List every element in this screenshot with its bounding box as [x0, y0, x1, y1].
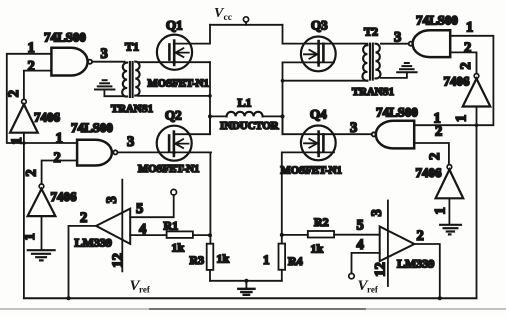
svg-text:INDUCTOR: INDUCTOR [220, 120, 279, 132]
wire Vcc top rail [210, 24, 283, 26]
wire R3 bottom to R4 bottom [210, 280, 282, 282]
wire Q3 drain to Vcc rail [282, 25, 284, 44]
svg-text:3: 3 [369, 209, 385, 216]
svg-text:74LS00: 74LS00 [416, 13, 458, 28]
node junction Q1 source crossing [172, 60, 176, 64]
svg-text:3: 3 [350, 120, 357, 136]
wire Q3 drain/gate line to T2 secondary top [283, 43, 362, 45]
svg-text:3: 3 [101, 46, 108, 62]
node junction Q4 gate crossing [317, 151, 321, 155]
svg-text:LM339: LM339 [75, 236, 112, 250]
node junction U10 output at bottom rail [438, 296, 442, 300]
svg-text:74LS00: 74LS00 [71, 120, 113, 135]
transistor Q3 MOSFET (mirrored) [301, 37, 336, 72]
svg-text:Q1: Q1 [166, 18, 183, 33]
svg-text:TRANS1: TRANS1 [352, 86, 394, 98]
wire left riser Q1 source down to Q2 drain [209, 62, 211, 134]
svg-text:1: 1 [454, 115, 470, 122]
wire bottom rail [24, 297, 477, 299]
svg-text:7406: 7406 [34, 110, 61, 125]
svg-text:1k: 1k [311, 242, 324, 256]
wire Q4 source line [283, 151, 335, 153]
transformer T1 [122, 62, 139, 97]
svg-text:1: 1 [263, 252, 270, 267]
inductor L1 [210, 112, 283, 117]
node junction center ground [244, 279, 248, 283]
svg-text:1: 1 [22, 233, 38, 240]
NAND gate U5 74LS00 top-right (mirrored) [409, 30, 451, 57]
svg-text:T1: T1 [125, 40, 139, 54]
svg-text:LM339: LM339 [397, 257, 434, 271]
node junction U2 input / cross wire [22, 141, 26, 145]
svg-text:Q3: Q3 [311, 18, 328, 33]
terminal Vcc [243, 17, 248, 25]
transistor Q2 MOSFET [157, 126, 192, 161]
transformer T2 [362, 44, 381, 81]
wire U9 pin5 to terminal [130, 195, 174, 217]
inverter 7406 U8 (lower-right) [436, 165, 464, 199]
wire U2 input stem down left rail to bottom rail [23, 133, 25, 299]
wire U5 pin2 to inverter U6 output [450, 52, 476, 73]
node junction R2 left [280, 233, 284, 237]
svg-text:Q4: Q4 [310, 107, 327, 122]
svg-text:2: 2 [427, 153, 443, 160]
wire U9 pin4 to R1 [130, 234, 166, 236]
svg-text:2: 2 [435, 124, 442, 140]
transistor Q1 MOSFET [157, 35, 192, 70]
label Vref (left) [130, 278, 151, 295]
wire U1 output to T1 primary top [92, 61, 124, 63]
wire U9 pin3 supply stub [121, 180, 123, 272]
ground (T1 primary) [95, 80, 125, 96]
transistor Q4 MOSFET (mirrored) [301, 125, 336, 160]
svg-text:R4: R4 [288, 254, 303, 268]
svg-text:5: 5 [357, 218, 364, 234]
svg-text:2: 2 [80, 210, 87, 226]
svg-text:ref: ref [139, 285, 151, 295]
svg-text:cc: cc [224, 13, 232, 23]
node junction Q2 source crossing [172, 151, 176, 155]
wire U1 pin2 to inverter U2 output [24, 71, 52, 100]
svg-text:Q2: Q2 [165, 108, 182, 123]
ground (U8 input) [440, 225, 461, 235]
svg-text:MOSFET-N1: MOSFET-N1 [281, 165, 342, 177]
wire T2 primary top to NAND U5 output [381, 43, 409, 45]
svg-text:4: 4 [357, 237, 364, 253]
wire U10 output pin2 to bottom rail [414, 244, 439, 298]
svg-text:1k: 1k [172, 241, 185, 255]
wire Q2 source down sense column to R3 [209, 152, 211, 243]
label Vcc [214, 6, 232, 23]
svg-text:2: 2 [54, 150, 61, 166]
wire T1 secondary bottom to riser [138, 95, 210, 97]
NAND gate U3 74LS00 mid-left [77, 140, 117, 166]
svg-text:1: 1 [56, 131, 63, 147]
terminal (U9 pin5) [171, 189, 177, 195]
svg-text:2: 2 [24, 169, 40, 176]
svg-text:T2: T2 [364, 25, 378, 39]
node junction U6 input / cross wire [475, 123, 479, 127]
svg-text:5: 5 [136, 201, 143, 217]
svg-text:12: 12 [372, 262, 388, 277]
svg-text:L1: L1 [238, 96, 252, 110]
svg-text:R1: R1 [164, 219, 179, 233]
svg-text:7406: 7406 [416, 165, 443, 180]
comparator U10 LM339 (right, pointing right) [380, 227, 415, 262]
NAND gate U1 74LS00 top-left [51, 48, 92, 76]
svg-text:2: 2 [458, 62, 474, 69]
wire T1 secondary top / Q1 gate-source line to L1 riser [139, 61, 211, 63]
svg-text:MOSFET-N1: MOSFET-N1 [148, 78, 209, 90]
node junction L1 right [281, 114, 285, 118]
resistor R3 [207, 244, 214, 281]
label Vref (right) [358, 278, 379, 295]
wire right riser Q3 source down to Q4 drain [282, 62, 284, 134]
inverter 7406 U2 (upper-left) [10, 99, 38, 132]
terminal Vref (U10 pin4) [349, 273, 354, 278]
svg-text:3: 3 [394, 30, 401, 46]
svg-text:2: 2 [28, 59, 35, 75]
svg-text:74LS00: 74LS00 [376, 105, 418, 120]
wire U4 input stem to ground [41, 216, 43, 249]
wire U5 pin1 right-rail cross-coupling to U7 pin1 [414, 36, 493, 125]
svg-text:R3: R3 [190, 253, 205, 267]
svg-text:TRANS1: TRANS1 [111, 103, 153, 115]
node junction R1 right [208, 233, 212, 237]
svg-text:1: 1 [28, 40, 35, 56]
ground (T2 primary) [381, 63, 417, 78]
svg-text:1: 1 [466, 20, 473, 36]
svg-text:ref: ref [367, 285, 379, 295]
wire U10 pin3 supply stub [387, 201, 389, 287]
wire NAND U1 pin1 cross-coupling: left rail down to lower NAND row [7, 54, 77, 143]
svg-text:MOSFET-N1: MOSFET-N1 [138, 163, 199, 175]
node junction U9 output at bottom rail [67, 296, 71, 300]
wire T2 secondary bottom to riser [283, 80, 368, 82]
svg-text:3: 3 [104, 196, 120, 203]
ground (center, R3/R4) [238, 281, 254, 295]
svg-text:1: 1 [433, 207, 449, 214]
ground (U4 input) [28, 250, 55, 260]
NAND gate U7 74LS00 mid-right (mirrored) [372, 121, 415, 149]
node junction T2 bottom [281, 79, 285, 83]
resistor R2 [282, 231, 334, 238]
inverter 7406 U6 (upper-right) [463, 74, 491, 107]
node junction T1 bottom [208, 94, 212, 98]
svg-text:2: 2 [417, 228, 424, 244]
wire R2 to U10 pin5 [334, 234, 380, 236]
node junction L1 left [208, 114, 212, 118]
wire U9 output pin2 to bottom rail [69, 226, 97, 298]
resistor R1 [167, 231, 210, 238]
svg-text:7406: 7406 [444, 74, 471, 89]
wire U10 pin4 to Vref terminal [352, 253, 380, 274]
svg-text:R2: R2 [314, 215, 329, 229]
wire U6 input stem down right rail to bottom rail [476, 107, 478, 299]
wire Q3 source line [283, 61, 335, 63]
node junction Q3 source crossing [317, 61, 321, 65]
svg-text:1k: 1k [217, 252, 230, 266]
svg-text:2: 2 [6, 90, 22, 97]
wire U3 pin2 to inverter U4 output [42, 161, 78, 185]
svg-text:3: 3 [127, 134, 134, 150]
wire U3 output to Q2 gate-source line [118, 151, 212, 153]
wire Q2 drain up to L1 left node [174, 116, 210, 134]
border bottom edge of figure [0, 308, 506, 310]
inverter 7406 U4 (lower-left) [28, 184, 56, 216]
resistor R4 [279, 244, 286, 281]
svg-text:12: 12 [110, 253, 126, 268]
wire Q1 drain to Vcc rail [174, 25, 210, 44]
svg-text:2: 2 [464, 40, 471, 56]
wire Q4 source down sense column to R4 [281, 152, 283, 243]
wire U7 pin2 to inverter U8 output [414, 143, 449, 165]
svg-text:74LS00: 74LS00 [44, 30, 86, 45]
svg-text:7406: 7406 [51, 189, 78, 204]
wire Q4 drain/gate line: riser up to L1, right to U7 output [283, 116, 372, 134]
comparator U9 LM339 (left, pointing left) [96, 209, 130, 244]
wire U8 input stem to ground [448, 198, 450, 223]
